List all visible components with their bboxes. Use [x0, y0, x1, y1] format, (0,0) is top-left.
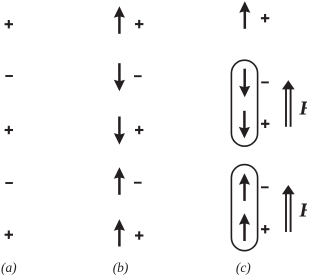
dipole arrow down (upper capsule, first) [239, 69, 250, 98]
label (b) [113, 260, 129, 275]
charge + (column a, row 3) [5, 126, 13, 134]
dipole arrow up (column c, top) [239, 1, 250, 29]
label (c) [236, 260, 251, 275]
label F (upper force) [298, 98, 313, 120]
charge - (column b, row 4) [134, 182, 142, 184]
dipole arrow down (upper capsule, second) [239, 111, 250, 139]
dipole arrow up (column b, row 5) [114, 219, 125, 246]
charge + (right of upper capsule) [261, 120, 269, 128]
svg-text:F: F [298, 98, 307, 120]
svg-text:(b): (b) [113, 260, 129, 275]
charge + (column a, row 1) [5, 20, 13, 28]
charge + (column b, row 1) [135, 20, 143, 28]
charge - (right of upper capsule) [261, 81, 269, 83]
svg-text:(a): (a) [1, 260, 17, 275]
dipole arrow up (lower capsule, second) [239, 213, 250, 241]
label (a) [1, 260, 17, 275]
molecule outline (upper capsule) [231, 60, 257, 146]
dipole arrow up (column b, row 1) [114, 6, 125, 34]
charge - (column a, row 4) [5, 182, 13, 184]
molecule outline (lower capsule) [231, 165, 257, 251]
charge - (right of lower capsule) [261, 186, 269, 188]
svg-text:F: F [298, 200, 307, 222]
dipole arrow down (column b, row 3) [114, 117, 125, 145]
svg-text:(c): (c) [236, 260, 251, 275]
charge - (column b, row 2) [134, 75, 142, 77]
charge + (right of lower capsule) [261, 225, 269, 233]
dipole arrow up (lower capsule, first) [239, 173, 250, 201]
charge + (column b, row 3) [135, 126, 143, 134]
force vector F (lower, double-shaft arrow up) [282, 185, 295, 232]
charge + (column b, row 5) [135, 231, 143, 239]
dipole arrow up (column b, row 4) [114, 167, 125, 195]
dipole arrow down (column b, row 2) [114, 63, 125, 91]
label F (lower force) [298, 200, 313, 222]
force vector F (upper, double-shaft arrow up) [282, 80, 295, 127]
charge + (column c, top) [261, 14, 269, 22]
charge + (column a, row 5) [5, 231, 13, 239]
charge - (column a, row 2) [5, 75, 13, 77]
